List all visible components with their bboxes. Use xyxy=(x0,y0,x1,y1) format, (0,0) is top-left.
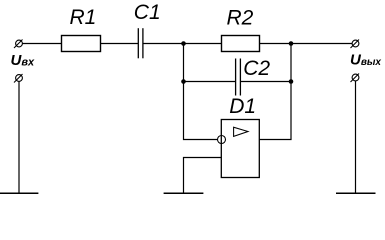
wire input terminal to R1 xyxy=(23,43,62,45)
wire output bottom to ground xyxy=(355,81,357,194)
svg-text:C1: C1 xyxy=(134,1,161,24)
wire node A down to op-amp input xyxy=(184,44,218,140)
capacitor C2 xyxy=(236,59,241,96)
wire input bottom to ground xyxy=(18,81,20,193)
wire R1 to C1 xyxy=(101,43,139,45)
op-amp triangle symbol xyxy=(234,127,248,136)
ground left xyxy=(0,192,38,194)
junction dot node A / C2 branch xyxy=(181,79,186,84)
junction dot node B / C2 branch xyxy=(289,79,294,84)
resistor R2 xyxy=(222,36,260,52)
terminal output bottom xyxy=(351,74,360,83)
capacitor C1 xyxy=(138,28,143,58)
wire op-amp second input to ground xyxy=(184,158,222,194)
op-amp inverting input circle xyxy=(218,136,226,144)
svg-text:D1: D1 xyxy=(229,95,256,118)
wire C2 branch left xyxy=(184,81,236,83)
svg-text:Uвх: Uвх xyxy=(11,52,35,69)
ground right xyxy=(336,192,376,194)
wire R2 to output terminal (through node B) xyxy=(260,43,353,45)
wire C1 to R2 (through node A) xyxy=(144,43,222,45)
svg-text:R2: R2 xyxy=(227,6,254,29)
wire node B down to op-amp output xyxy=(259,44,291,140)
terminal input bottom xyxy=(14,74,23,83)
terminal input top (Uвх) xyxy=(14,40,23,49)
wire C2 branch right xyxy=(241,81,291,83)
terminal output top (Uвых) xyxy=(351,40,360,49)
svg-text:Uвых: Uвых xyxy=(350,52,381,69)
svg-text:R1: R1 xyxy=(70,6,97,29)
op-amp D1 body xyxy=(221,120,259,178)
node B junction dot xyxy=(289,41,294,46)
resistor R1 xyxy=(62,36,101,52)
node A junction dot xyxy=(181,41,186,46)
svg-text:C2: C2 xyxy=(243,57,270,80)
ground middle xyxy=(164,192,204,194)
